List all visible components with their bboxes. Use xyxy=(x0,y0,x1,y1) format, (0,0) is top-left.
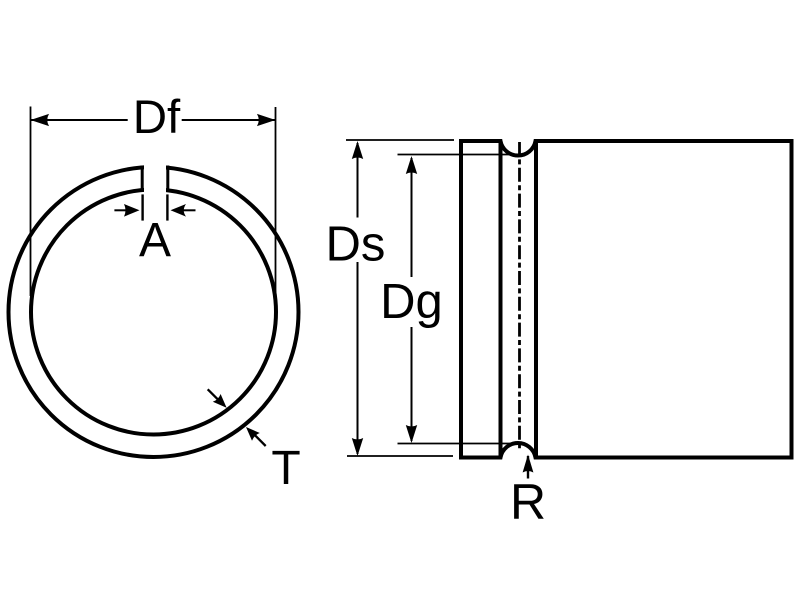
svg-text:Ds: Ds xyxy=(326,218,386,272)
svg-text:T: T xyxy=(271,442,300,495)
svg-text:Dg: Dg xyxy=(380,275,443,329)
svg-text:R: R xyxy=(510,474,546,530)
svg-text:A: A xyxy=(139,214,171,267)
svg-text:Df: Df xyxy=(133,91,181,144)
